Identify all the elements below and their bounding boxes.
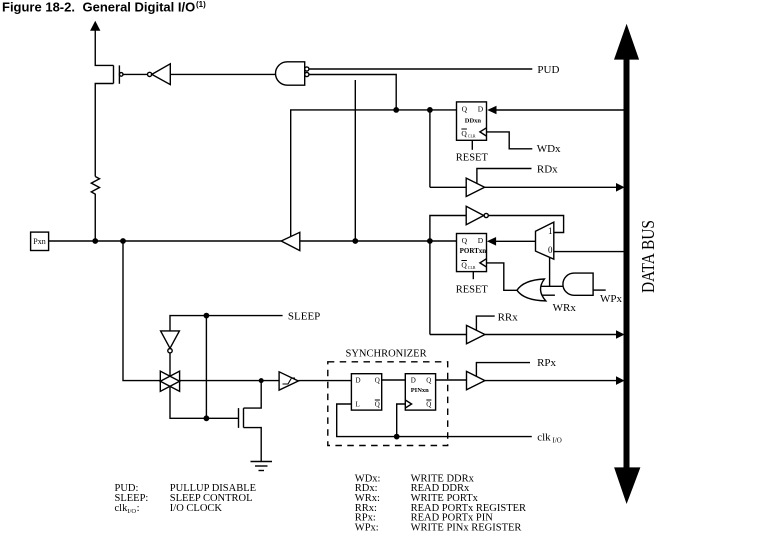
svg-text:WRx: WRx (553, 302, 577, 314)
svg-text:Q: Q (375, 377, 380, 385)
svg-text:0: 0 (548, 245, 553, 255)
svg-text:I/O: I/O (127, 508, 136, 515)
svg-text:Q: Q (426, 401, 431, 409)
svg-text:Pxn: Pxn (33, 237, 45, 246)
svg-text:PUD: PUD (537, 64, 559, 76)
svg-text:D: D (478, 236, 484, 245)
svg-text:CLR: CLR (468, 133, 476, 138)
svg-text:SYNCHRONIZER: SYNCHRONIZER (346, 349, 427, 360)
svg-text:WPx:: WPx: (355, 523, 379, 534)
svg-text:General Digital I/O: General Digital I/O (83, 0, 196, 15)
svg-text:I/O: I/O (553, 437, 562, 445)
svg-text:WPx: WPx (600, 293, 623, 305)
svg-text:D: D (411, 377, 416, 385)
svg-text:SLEEP: SLEEP (288, 310, 320, 322)
svg-text:DDxn: DDxn (465, 118, 482, 125)
svg-text:RESET: RESET (456, 153, 489, 164)
svg-text:Q: Q (375, 401, 380, 409)
svg-text:D: D (356, 377, 361, 385)
svg-text:PORTxn: PORTxn (460, 247, 487, 255)
svg-text:Q: Q (426, 377, 431, 385)
svg-text:RRx: RRx (498, 312, 519, 324)
svg-text:Q: Q (461, 129, 467, 138)
svg-text:clk: clk (537, 431, 551, 443)
svg-text:(1): (1) (196, 0, 206, 9)
svg-text:clk: clk (115, 503, 129, 514)
svg-text:WDx: WDx (537, 143, 561, 155)
svg-text:Q: Q (462, 105, 468, 114)
svg-text:Figure 18-2.: Figure 18-2. (2, 0, 75, 15)
svg-text:WRITE PINx REGISTER: WRITE PINx REGISTER (411, 523, 522, 534)
svg-text::: : (137, 503, 140, 514)
svg-text:Q: Q (462, 236, 468, 245)
svg-text:RDx: RDx (537, 164, 558, 176)
svg-text:1: 1 (548, 226, 553, 236)
svg-text:Q: Q (461, 261, 467, 270)
svg-text:CLR: CLR (468, 265, 476, 270)
svg-text:PINxn: PINxn (411, 387, 429, 394)
svg-text:L: L (356, 401, 360, 409)
svg-text:RPx: RPx (537, 357, 556, 369)
svg-text:DATA BUS: DATA BUS (638, 220, 658, 293)
svg-text:I/O CLOCK: I/O CLOCK (170, 503, 223, 514)
svg-text:D: D (478, 105, 484, 114)
svg-text:RESET: RESET (456, 284, 489, 295)
